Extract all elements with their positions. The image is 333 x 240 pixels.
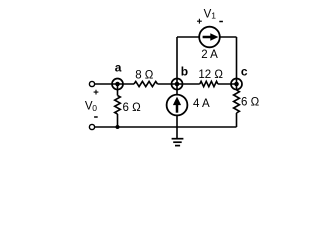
minus sign at 2A source — [219, 21, 223, 23]
node b ring — [172, 79, 183, 90]
svg-text:1: 1 — [211, 11, 216, 21]
svg-text:4 A: 4 A — [193, 98, 210, 110]
node a ring — [112, 79, 123, 90]
minus sign at left terminal — [94, 116, 98, 118]
junction dot at 6 ohm bottom — [116, 125, 120, 129]
4A arrow — [176, 105, 179, 113]
resistor R 6ohm right zigzag — [234, 90, 240, 113]
ground symbol — [172, 139, 184, 146]
current source U 2A circle — [199, 27, 220, 48]
plus sign at 2A source — [197, 19, 202, 24]
wire: node b up lead to top loop — [176, 37, 178, 84]
resistor R 6ohm left zigzag — [115, 96, 121, 114]
svg-text:6 Ω: 6 Ω — [123, 102, 142, 114]
wire: 8 ohm to 12 ohm (through node b) — [158, 83, 200, 85]
2A arrow — [203, 36, 211, 39]
wire: 12 ohm to node c — [218, 83, 237, 85]
wire: bottom return wire — [95, 126, 237, 128]
terminal top left open circle — [89, 81, 94, 86]
terminal bottom left open circle — [89, 124, 94, 129]
svg-text:b: b — [181, 65, 188, 79]
svg-text:2 A: 2 A — [201, 49, 218, 61]
wire: 4A source bottom lead and ground stem — [176, 115, 178, 138]
svg-text:a: a — [115, 61, 122, 75]
svg-text:8 Ω: 8 Ω — [135, 69, 154, 81]
svg-text:0: 0 — [92, 103, 97, 113]
wire: 6 ohm right bottom lead — [236, 113, 238, 127]
plus sign at left terminal — [94, 90, 99, 95]
wire: node a down lead to 6 ohm — [117, 84, 119, 96]
current source U 4A circle — [167, 95, 188, 116]
svg-text:6 Ω: 6 Ω — [241, 97, 260, 109]
resistor R 12ohm zigzag — [200, 81, 218, 86]
wire: terminal to 8 ohm (through node a) — [95, 83, 134, 85]
node c ring — [231, 79, 242, 90]
wire: 6 ohm left bottom lead — [117, 114, 119, 127]
wire: top loop right horizontal — [220, 36, 237, 38]
svg-text:c: c — [241, 65, 248, 79]
wire: node b down lead to 4A source — [176, 84, 178, 95]
svg-text:12 Ω: 12 Ω — [198, 69, 223, 81]
wire: top loop left horizontal — [177, 36, 199, 38]
resistor R 8ohm zigzag — [134, 81, 158, 86]
wire: node c vertical from top loop down to 6 ohm — [236, 37, 238, 90]
